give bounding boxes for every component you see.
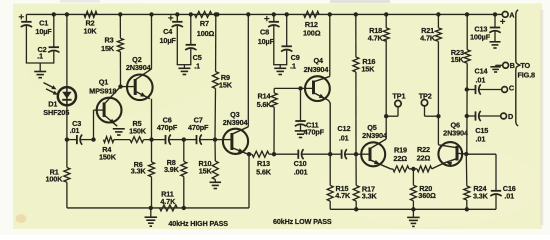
svg-text:.1: .1	[194, 61, 200, 70]
svg-text:150K: 150K	[99, 153, 117, 162]
wire R23 to Q6 collector	[466, 63, 496, 154]
svg-text:150K: 150K	[129, 127, 147, 136]
svg-text:2N3904: 2N3904	[126, 63, 152, 72]
svg-text:3.3K: 3.3K	[131, 166, 147, 175]
wire Q2 emitter	[151, 99, 153, 140]
node Q4 emitter-R15-C12	[328, 152, 332, 156]
node C2 rail dot	[52, 12, 56, 16]
node R9-R10-Q3 base	[213, 137, 217, 141]
resistor R5	[129, 119, 147, 143]
node X junction	[65, 137, 69, 141]
transistor Q1	[89, 78, 121, 140]
wire C2 bottom	[53, 51, 55, 63]
ground C11	[295, 131, 307, 138]
node R19-R22-R20	[411, 167, 415, 171]
node R9 rail dot	[214, 12, 218, 16]
svg-text:C14: C14	[475, 66, 489, 75]
ground C8-C9	[274, 65, 286, 75]
capacitor C9	[281, 14, 300, 70]
resistor R19	[393, 146, 409, 172]
svg-text:15K: 15K	[199, 167, 213, 176]
svg-text:.01: .01	[476, 76, 486, 85]
svg-text:4.7K: 4.7K	[420, 33, 436, 42]
resistor R20	[410, 169, 436, 209]
capacitor C12	[330, 124, 356, 159]
edge strip right	[540, 10, 543, 225]
resistor R15	[327, 154, 351, 209]
svg-text:TP1: TP1	[392, 92, 405, 101]
svg-text:FIG.8: FIG.8	[517, 71, 535, 80]
node R13-C10-R14	[272, 152, 276, 156]
terminal C	[502, 84, 515, 93]
svg-text:3.3K: 3.3K	[473, 191, 489, 200]
capacitor C1	[19, 14, 53, 36]
svg-text:15K: 15K	[361, 65, 375, 74]
svg-text:4.7K: 4.7K	[368, 33, 384, 42]
node R11 right dot	[182, 206, 186, 210]
resistor R22	[417, 145, 432, 172]
svg-text:60kHz LOW PASS: 60kHz LOW PASS	[273, 217, 332, 226]
wire D1 bottom	[66, 105, 68, 140]
node C9 rail dot	[285, 12, 289, 16]
light arrows into D1	[44, 83, 59, 95]
svg-text:470pF: 470pF	[157, 123, 178, 132]
node R17 LP rail dot	[354, 207, 358, 211]
wire V+ top rail	[26, 13, 502, 15]
svg-text:10µF: 10µF	[258, 37, 275, 46]
resistor R2	[84, 11, 98, 35]
wire Q3 collector	[247, 14, 249, 126]
label 40kHz HIGH PASS	[168, 219, 228, 228]
svg-text:C: C	[509, 84, 515, 93]
resistor R24	[464, 154, 489, 209]
resistor R14	[257, 88, 278, 154]
wire high-pass ground rail	[67, 154, 249, 208]
resistor R18	[368, 14, 389, 42]
node LP rail ground dot	[411, 207, 415, 211]
wire D1 top	[66, 14, 68, 87]
brace to FIG.8	[516, 10, 520, 126]
node R3-Q1-Q2 junction	[118, 84, 122, 88]
node R24 LP rail dot	[465, 207, 469, 211]
ground C13	[490, 31, 501, 48]
node R23 rail dot	[465, 12, 469, 16]
ground C1-C2	[34, 63, 46, 78]
svg-text:TP2: TP2	[419, 92, 432, 101]
svg-text:4.7K: 4.7K	[335, 191, 351, 200]
svg-text:3.9K: 3.9K	[164, 165, 180, 174]
node C13 rail dot	[493, 12, 497, 16]
label 60kHz LOW PASS	[273, 217, 332, 226]
node R8 top	[182, 137, 186, 141]
svg-text:Q1: Q1	[99, 78, 109, 87]
svg-text:C12: C12	[337, 124, 350, 133]
svg-text:5.6K: 5.6K	[257, 100, 273, 109]
node R7 right rail dot	[215, 12, 219, 16]
svg-text:.1: .1	[290, 61, 296, 70]
node Q3 collector rail dot	[246, 12, 250, 16]
resistor R4	[99, 137, 117, 162]
svg-text:2N3904: 2N3904	[223, 118, 249, 127]
capacitor C13	[470, 14, 505, 41]
wire Q2 collector	[151, 14, 153, 69]
capacitor C15	[467, 111, 501, 144]
wire C16 bottom	[494, 194, 497, 209]
node TP2 tap	[436, 114, 440, 118]
wire R5-C6	[144, 139, 166, 141]
svg-text:22Ω: 22Ω	[393, 154, 407, 163]
ground R10	[210, 182, 222, 188]
edge smudge bottom-left	[16, 214, 27, 223]
svg-text:.01: .01	[476, 135, 486, 144]
node C14 tap	[465, 87, 469, 91]
svg-text:100Ω: 100Ω	[303, 28, 321, 37]
capacitor C2	[37, 14, 59, 60]
svg-text:10µF: 10µF	[160, 36, 177, 45]
resistor R13	[249, 151, 274, 176]
node C4 rail dot	[175, 12, 179, 16]
node C15 tap	[465, 114, 469, 118]
capacitor C11	[295, 88, 325, 136]
transistor Q2	[121, 55, 153, 100]
wire C9 bottom	[286, 50, 288, 65]
node Q1 base tap	[91, 137, 95, 141]
svg-text:40kHz HIGH PASS: 40kHz HIGH PASS	[168, 219, 228, 228]
wire C16 column	[495, 154, 497, 190]
svg-text:360Ω: 360Ω	[418, 191, 436, 200]
svg-text:C8: C8	[260, 28, 269, 37]
node HP rail ground dot	[149, 206, 153, 210]
resistor R10	[199, 140, 219, 183]
terminal B	[496, 61, 515, 70]
svg-text:470pF: 470pF	[304, 127, 325, 136]
terminal A	[502, 10, 515, 19]
resistor R17	[353, 154, 377, 209]
svg-text:MPS918: MPS918	[89, 87, 116, 96]
svg-text:15K: 15K	[101, 44, 115, 53]
wire Q4 collector	[329, 14, 331, 76]
resistor R16	[353, 14, 375, 154]
capacitor C14	[467, 66, 502, 94]
svg-text:SHF205: SHF205	[43, 108, 69, 117]
ground LP rail	[407, 209, 420, 226]
svg-text:470pF: 470pF	[188, 123, 209, 132]
node R18 rail dot	[384, 12, 388, 16]
svg-text:.01: .01	[504, 191, 514, 200]
svg-text:100K: 100K	[45, 175, 63, 184]
svg-text:100µF: 100µF	[470, 32, 491, 41]
transistor Q4	[304, 56, 331, 154]
wire R19-R22	[409, 168, 417, 170]
ground C4-C5	[178, 65, 190, 75]
svg-text:C4: C4	[163, 27, 173, 36]
resistor R7	[195, 11, 215, 38]
svg-text:Q4: Q4	[313, 56, 324, 65]
label TO FIG.8	[517, 61, 535, 80]
svg-text:TO: TO	[520, 61, 530, 70]
wire C8 bottom	[273, 26, 287, 65]
transistor Q3	[215, 110, 249, 154]
svg-text:D: D	[508, 112, 513, 121]
node D1 rail dot	[65, 12, 69, 16]
capacitor C5	[185, 14, 202, 70]
wire C5 bottom	[190, 48, 192, 64]
ground Q1 emitter	[113, 129, 125, 135]
wire low-pass ground rail	[330, 208, 496, 210]
svg-text:.1: .1	[37, 52, 43, 61]
resistor R9	[213, 14, 233, 139]
svg-text:15K: 15K	[219, 81, 233, 90]
capacitor C3	[67, 119, 94, 145]
capacitor C10	[274, 149, 330, 176]
svg-text:A: A	[509, 10, 515, 19]
test point TP2	[419, 92, 439, 117]
svg-text:5.6K: 5.6K	[256, 168, 272, 177]
svg-text:B: B	[510, 61, 515, 70]
node R16 rail dot	[354, 12, 358, 16]
svg-text:10K: 10K	[84, 26, 98, 35]
capacitor C6	[157, 115, 184, 144]
node R6 top	[149, 137, 153, 141]
svg-text:.01: .01	[70, 126, 80, 135]
svg-text:2N3904: 2N3904	[443, 129, 469, 138]
resistor R6	[131, 140, 155, 208]
terminal D	[501, 112, 513, 121]
svg-text:3.3K: 3.3K	[362, 191, 378, 200]
node C5 rail dot	[189, 12, 193, 16]
capacitor C7	[184, 115, 215, 144]
wire Q4 base	[274, 87, 312, 89]
node C11 tap	[298, 86, 302, 90]
node C8 rail dot	[272, 12, 276, 16]
node TP1 tap	[384, 114, 388, 118]
svg-text:15K: 15K	[451, 55, 465, 64]
resistor R12	[303, 11, 321, 37]
node R21 rail dot	[436, 12, 440, 16]
node Q6 collector junction	[464, 152, 468, 156]
svg-text:.001: .001	[294, 167, 308, 176]
wire C4 bottom	[177, 26, 192, 65]
node C12-R16-R17-Q5 base	[354, 152, 358, 156]
node R3 rail dot	[118, 12, 122, 16]
wire R4-R5	[114, 139, 130, 141]
capacitor C8	[258, 14, 280, 46]
resistor R21	[420, 14, 441, 116]
capacitor C4	[160, 14, 183, 45]
resistor R8	[164, 140, 187, 208]
test point TP1	[386, 92, 405, 117]
ground HP rail	[145, 208, 158, 226]
svg-text:4.7K: 4.7K	[160, 197, 176, 206]
transistor Q5	[356, 123, 393, 169]
svg-text:.01: .01	[339, 133, 349, 142]
wire C1 bottom	[26, 26, 55, 63]
wire Q5 collector	[385, 40, 387, 139]
capacitor C16	[490, 184, 515, 200]
node Q3 emitter junction	[247, 152, 251, 156]
resistor R1	[45, 140, 69, 208]
edge smudge top	[60, 0, 390, 3]
svg-text:2N3904: 2N3904	[304, 65, 330, 74]
svg-text:22Ω: 22Ω	[417, 153, 431, 162]
svg-text:R7: R7	[200, 19, 209, 28]
node Q2 collector rail dot	[149, 12, 153, 16]
photodiode D1	[43, 87, 76, 117]
svg-text:2N3904: 2N3904	[362, 131, 388, 140]
ground terminal B	[490, 65, 501, 72]
resistor R3	[101, 14, 123, 86]
node Q4 collector rail dot	[328, 12, 332, 16]
svg-text:100Ω: 100Ω	[197, 29, 215, 38]
wire R21 to Q6 base	[437, 116, 439, 145]
svg-text:10µF: 10µF	[35, 27, 52, 36]
resistor R11	[160, 190, 178, 211]
resistor R23	[451, 14, 470, 63]
transistor Q6	[432, 120, 469, 169]
